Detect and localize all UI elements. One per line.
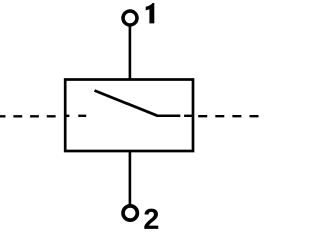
dashed centerline left	[0, 115, 56, 117]
terminal circle 2	[123, 206, 137, 220]
dash stub inside left edge	[65, 115, 69, 117]
pin label 2	[144, 209, 158, 229]
dashed centerline right	[198, 115, 258, 117]
switch enclosure box	[65, 80, 193, 152]
wire bottom vertical	[129, 152, 132, 205]
pin label 1	[146, 3, 155, 23]
switch blade	[95, 91, 158, 116]
dash segment inside right	[184, 115, 193, 117]
dash segment inside left	[78, 115, 86, 117]
wire top vertical	[129, 26, 132, 80]
fixed contact lead	[157, 114, 181, 117]
terminal circle 1	[123, 11, 137, 25]
